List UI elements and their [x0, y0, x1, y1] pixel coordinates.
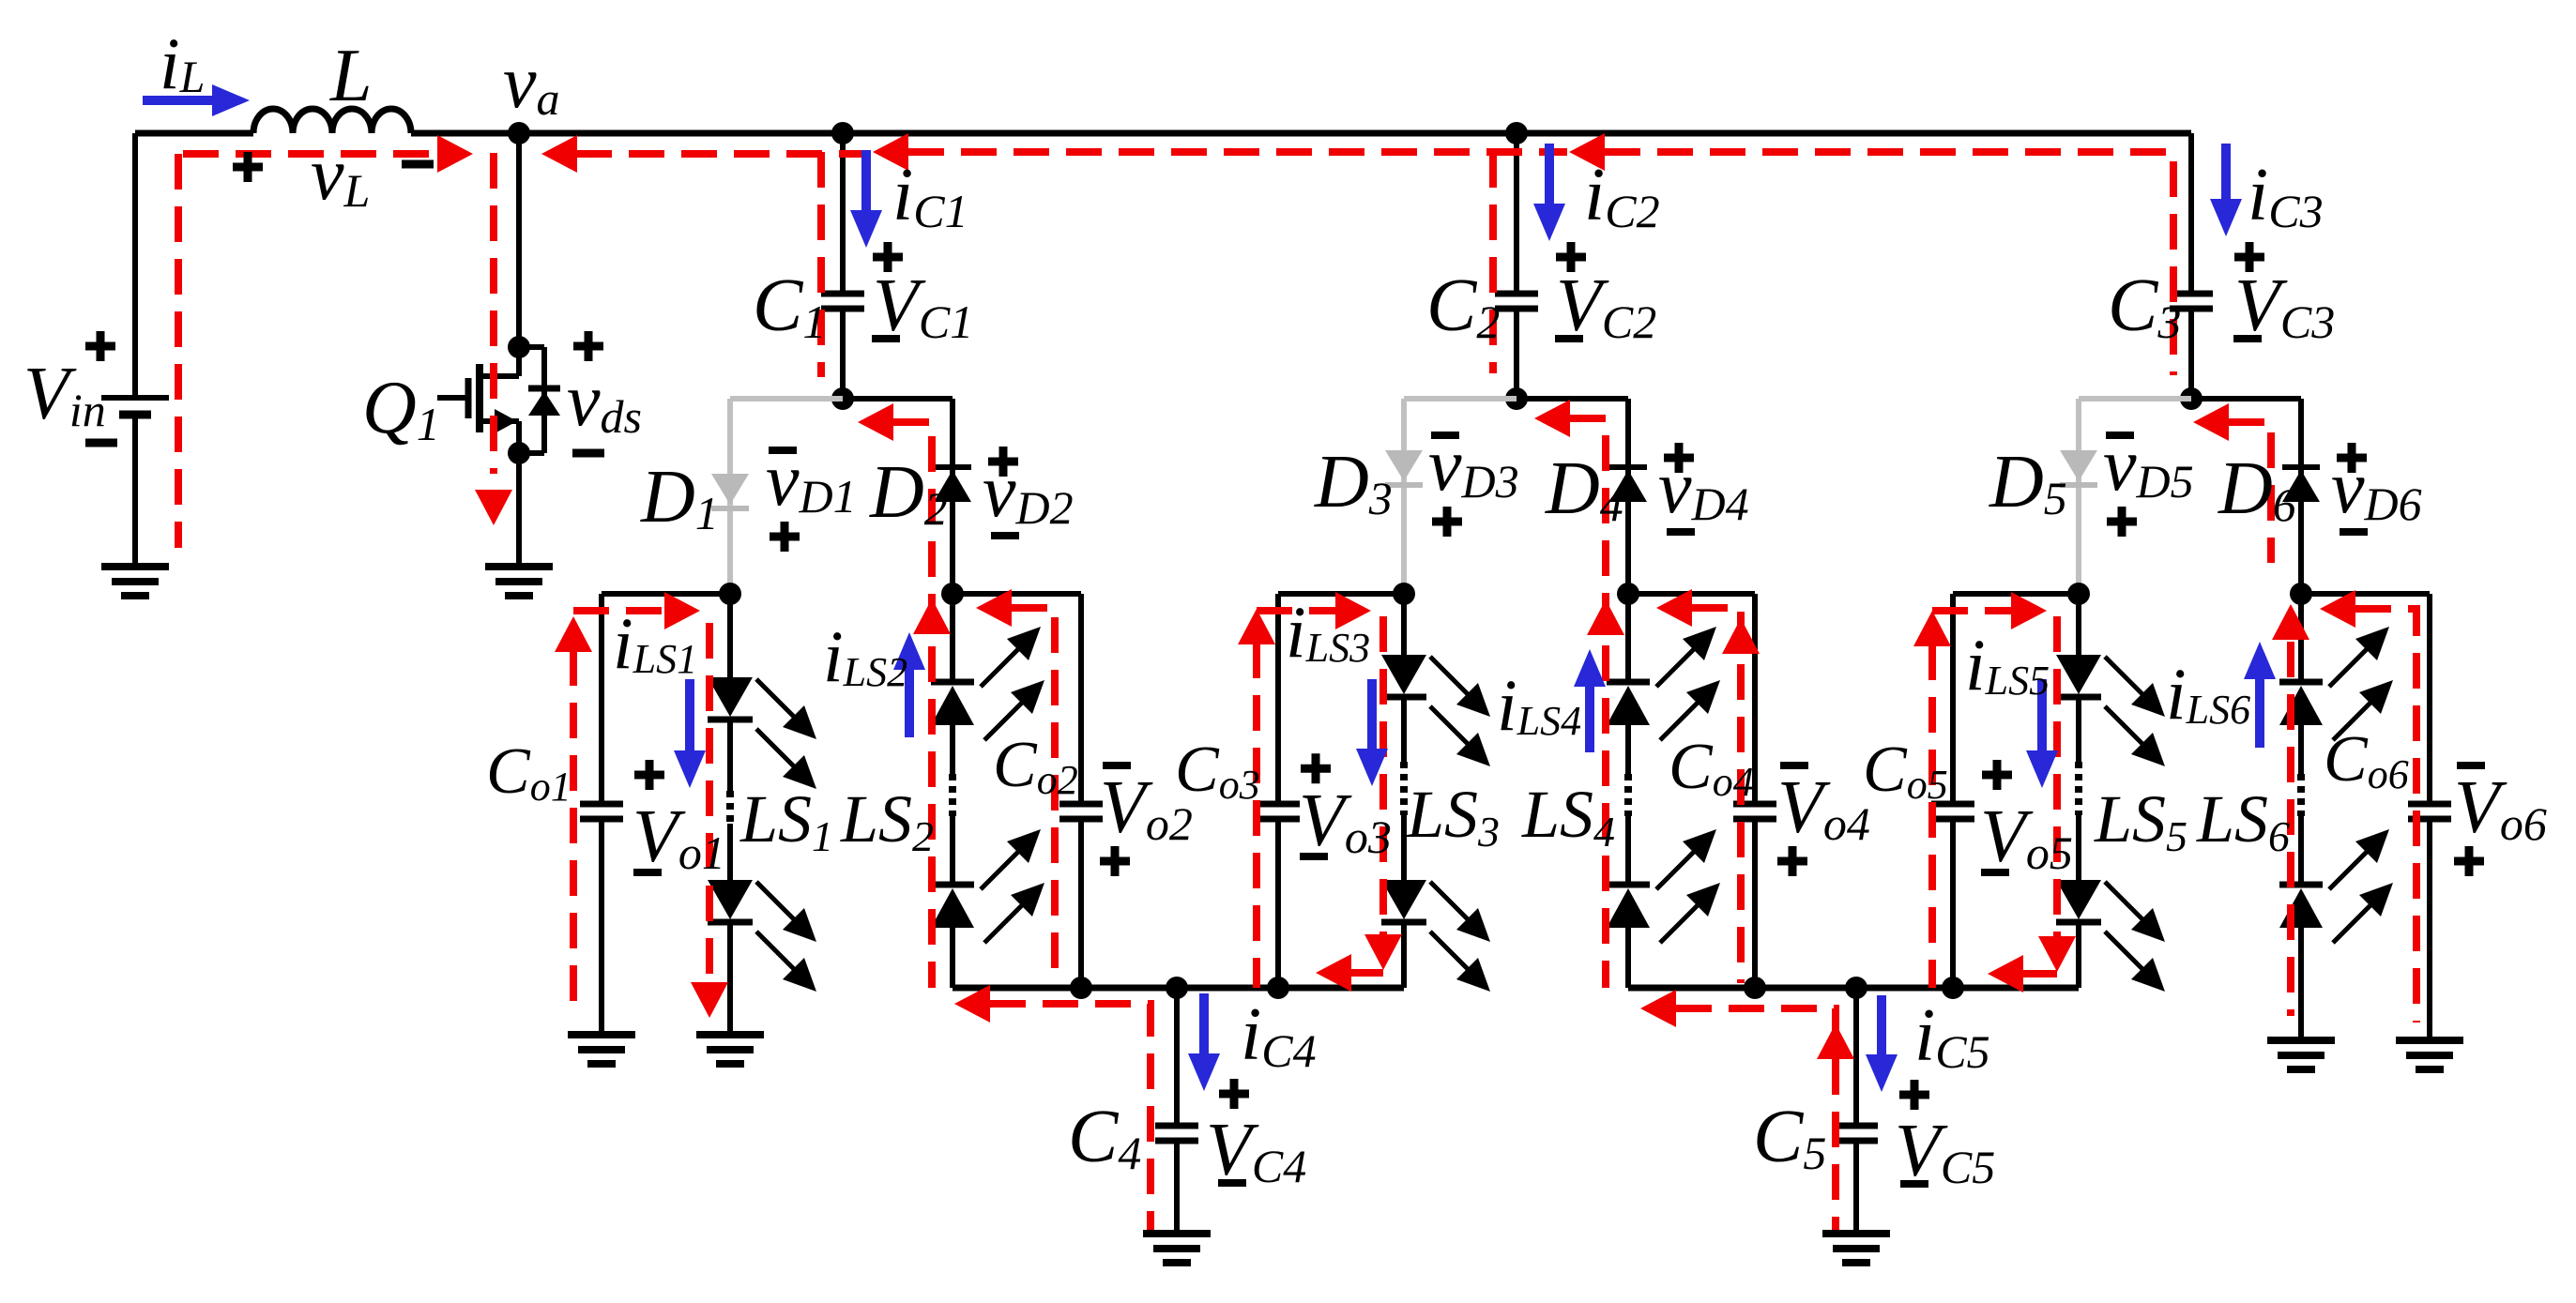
svg-text:L: L [329, 35, 373, 117]
